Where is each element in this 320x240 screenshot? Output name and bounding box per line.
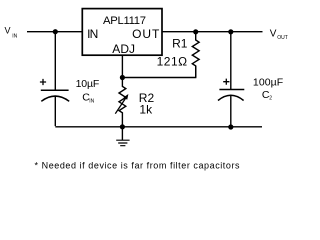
svg-text:APL1117: APL1117: [103, 15, 146, 27]
svg-text:121Ω: 121Ω: [157, 54, 188, 68]
svg-text:1k: 1k: [139, 102, 153, 116]
resistor R2 zigzag (variable): [119, 78, 126, 127]
wire C2 bottom lead: [230, 96, 232, 127]
capacitor C2 curved plate: [218, 95, 244, 100]
wire C1 bottom lead: [54, 97, 56, 127]
svg-text:2: 2: [269, 96, 272, 102]
wire OUT pin to Vout: [162, 31, 263, 33]
resistor R2 wiper arrow: [115, 98, 126, 114]
svg-text:V: V: [5, 25, 11, 35]
wire ADJ pin drop: [121, 55, 123, 77]
svg-text:OUT: OUT: [132, 27, 160, 41]
node junction dot Vin/C1: [53, 29, 58, 34]
capacitor C1 curved plate: [41, 96, 69, 101]
capacitor C2 top plate: [219, 89, 244, 91]
svg-text:10µF: 10µF: [76, 78, 100, 90]
svg-text:IN: IN: [89, 98, 94, 104]
svg-text:OUT: OUT: [277, 35, 288, 41]
op-amp U1 regulator box APL1117: [82, 9, 162, 56]
svg-text:V: V: [270, 29, 277, 40]
wire Vin to IN pin: [27, 31, 82, 33]
node junction dot C2 bottom: [228, 124, 233, 129]
node junction dot ADJ: [120, 75, 125, 80]
svg-text:IN: IN: [12, 34, 17, 40]
node junction dot C2 top: [228, 29, 233, 34]
svg-text:* Needed if device is far from: * Needed if device is far from filter ca…: [35, 161, 240, 171]
wire C1 top drop: [54, 32, 56, 90]
wire ADJ node to R1 bottom: [122, 66, 195, 78]
wire bottom rail: [55, 126, 262, 128]
resistor R1 zigzag: [192, 32, 199, 78]
svg-text:IN: IN: [87, 27, 98, 41]
svg-text:ADJ: ADJ: [112, 42, 135, 56]
node junction dot R1 top: [193, 29, 198, 34]
ground symbol: [116, 140, 129, 146]
wire ground lead: [121, 127, 123, 140]
wire C2 top drop: [230, 32, 232, 89]
svg-text:R1: R1: [172, 37, 188, 51]
capacitor C2 plus sign: [223, 79, 229, 85]
capacitor C1 plus sign: [40, 79, 46, 85]
capacitor C1 top plate: [41, 89, 69, 91]
node junction dot R2 bottom: [120, 124, 125, 129]
svg-text:100µF: 100µF: [253, 77, 283, 89]
